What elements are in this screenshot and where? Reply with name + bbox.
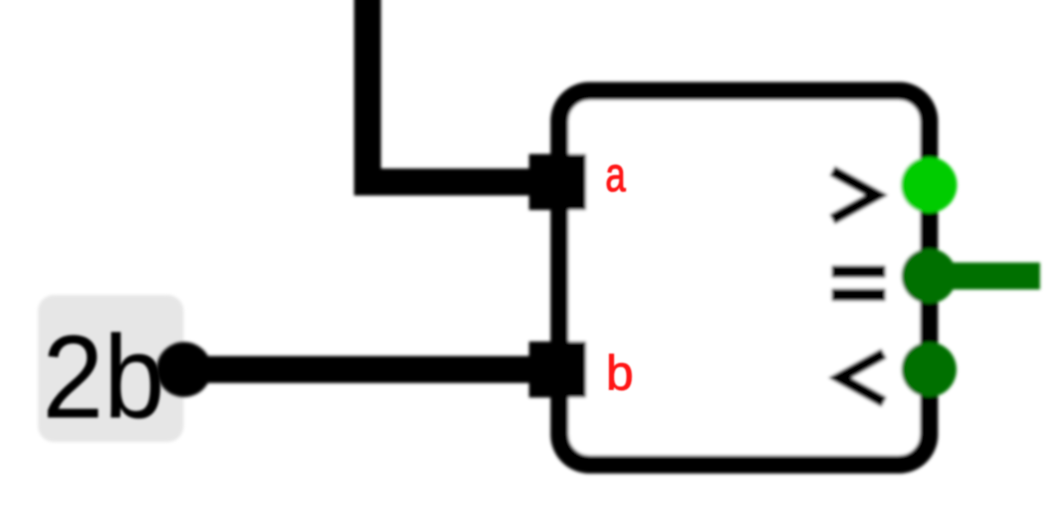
output pin = dot (low, dark green) [902,249,957,304]
node 2b junction dot [157,342,212,397]
svg-text:b: b [606,346,634,401]
pin a (input square) [529,154,586,210]
label &lt; output [840,354,884,402]
output pin &lt; dot (low, dark green) [902,342,957,397]
wire from tunnel 2b into input b [184,356,558,383]
svg-text:a: a [605,148,626,202]
wire output = (dark green, value 0) [929,263,1040,290]
comparator U1 body [560,91,930,465]
pin b (input square) [529,342,586,398]
label = output [832,266,886,301]
wire from top into input a [368,0,559,182]
tunnel badge 2b [38,295,184,442]
svg-text:2b: 2b [42,312,165,443]
label &gt; output [832,171,876,219]
output pin &gt; dot (high, bright green) [901,157,957,213]
